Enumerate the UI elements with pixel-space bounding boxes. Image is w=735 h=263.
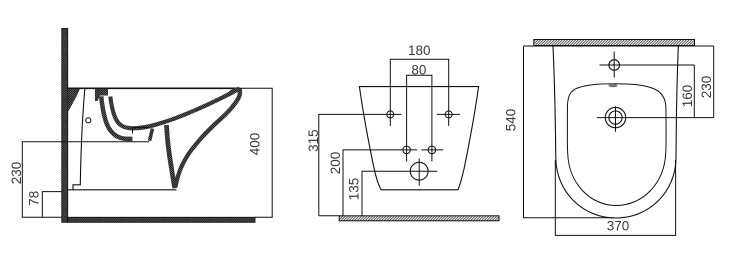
dim 180 lines	[390, 59, 448, 126]
svg-text:80: 80	[411, 63, 426, 78]
dim 540 lines	[524, 46, 615, 218]
tap hole center mark	[613, 64, 615, 66]
drain crosshair	[597, 106, 714, 131]
svg-text:78: 78	[26, 191, 41, 206]
bidet rim section block	[95, 89, 108, 101]
svg-text:400: 400	[247, 133, 262, 156]
bowl front outer wall (hatched band)	[101, 96, 132, 139]
front face outline	[73, 89, 85, 190]
svg-text:230: 230	[699, 76, 714, 99]
body outline	[359, 87, 478, 190]
dim 370 lines	[555, 160, 675, 235]
svg-text:200: 200	[328, 152, 343, 175]
svg-text:180: 180	[408, 43, 431, 58]
svg-text:315: 315	[306, 129, 321, 152]
supply hole	[86, 118, 91, 123]
floor (hatched)	[339, 216, 499, 221]
bowl inner wall / bowl bottom rising to rear tip (hatched band)	[110, 92, 233, 128]
bidet rear mount section (hatched wedge at wall)	[68, 89, 80, 113]
dim 135 line	[362, 171, 404, 216]
dim 160 line	[693, 65, 695, 118]
svg-text:540: 540	[503, 109, 518, 132]
drain crosshair	[404, 158, 437, 185]
wall face line with dim extensions	[524, 45, 714, 47]
dim 200 line	[343, 150, 417, 216]
fixing hole right	[445, 111, 452, 118]
wall (section, hatched)	[62, 29, 68, 223]
dim 230 line	[713, 46, 715, 118]
drain inner	[609, 111, 622, 124]
tap hole crosshair	[600, 52, 695, 78]
svg-text:230: 230	[9, 162, 24, 185]
drain circle	[410, 162, 428, 180]
rear outer shell S-curve (hatched band)	[175, 89, 240, 188]
svg-text:370: 370	[607, 219, 630, 234]
svg-text:135: 135	[346, 178, 361, 201]
bidet inner rim	[567, 84, 666, 206]
rear tip hook connector	[231, 89, 240, 93]
wall (hatched bar)	[534, 40, 695, 46]
bidet outer outline	[553, 46, 678, 218]
drain pocket hatched edge	[150, 129, 153, 141]
fixing hole left	[387, 111, 394, 118]
bidet rim top line	[68, 87, 240, 89]
dim 230 lines	[22, 142, 149, 218]
dim 78 lines	[42, 192, 62, 218]
svg-text:160: 160	[680, 85, 695, 108]
tap hole right arm	[422, 149, 444, 151]
underside line	[68, 189, 177, 191]
dim 315 line	[319, 114, 402, 215]
floor (section, hatched)	[68, 217, 255, 222]
tap hole left	[403, 146, 411, 154]
dim 400 lines	[240, 88, 272, 217]
floor line extension	[319, 215, 339, 217]
drain outer	[605, 107, 625, 127]
fixing hole right arms	[437, 113, 460, 115]
dim 80 lines	[407, 75, 432, 161]
overflow notch	[609, 84, 618, 88]
tap hole right	[428, 146, 436, 154]
trap support column (hatched band)	[167, 125, 175, 188]
drain pocket outline	[133, 128, 150, 134]
tap hole	[609, 60, 620, 71]
